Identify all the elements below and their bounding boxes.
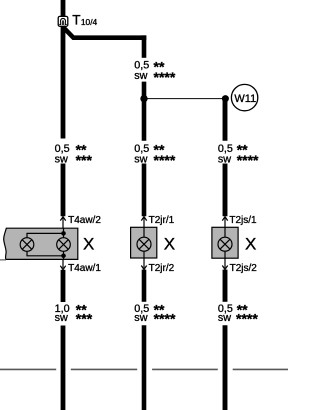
bulb E (left) in lamp unit [20,238,34,252]
ground rail line (bottom frame) [0,368,288,370]
wire W-left segment below lamp unit [61,270,66,302]
pin T2js/1 (arrow into right lamp) [222,215,257,227]
svg-text:sw: sw [55,312,68,324]
wire W-middle segment below top label through junction [142,82,147,141]
wire W-right segment below lamp [223,270,228,302]
bulb in middle lamp [137,227,151,258]
label X (right lamp) [245,235,256,254]
svg-text:T2js/1: T2js/1 [229,215,257,226]
pin T2js/2 (arrow out of right lamp) [222,258,257,274]
bulb in right lamp [218,227,232,258]
svg-text:****: **** [237,152,259,168]
wire parallel top link in left lamp unit [27,233,64,237]
svg-text:X: X [164,235,175,254]
label X (middle lamp) [164,235,175,254]
node: exit junction in left lamp unit [61,251,66,259]
svg-text:W11: W11 [234,93,256,105]
node: entry junction in left lamp unit [61,228,66,237]
value label 1,0 sw ** *** (left track, bottom) [55,302,93,327]
lamp M2 middle (box) [131,227,157,258]
value label 0,5 sw ** (middle track, top) [134,58,176,85]
svg-text:****: **** [154,311,176,327]
wire W-middle segment below lamp [142,270,147,302]
wire W-right bottom segment to edge [223,325,228,410]
svg-text:***: *** [76,311,93,327]
svg-text:****: **** [236,311,258,327]
wiring connection W11 [231,84,257,110]
wire W-left bottom segment to edge [61,326,66,410]
svg-text:T2js/2: T2js/2 [230,263,258,274]
svg-text:T2jr/2: T2jr/2 [149,263,175,274]
torn-edge baseline extension at image left [0,259,6,261]
svg-text:T2jr/1: T2jr/1 [149,215,175,226]
lamp M3 right (box) [212,227,238,258]
wire W-right lower segment to lamp unit [223,164,228,217]
wire W-middle bottom segment to edge [142,325,147,410]
wire W-left top segment entering connector [61,0,66,17]
svg-text:T: T [72,13,80,28]
lamp unit X left (twin bulbs, component torn edge) [4,228,78,259]
pin T2jr/2 (arrow out of middle lamp) [141,258,174,274]
svg-text:****: **** [154,69,176,85]
wire W-middle lower segment to lamp unit [142,164,147,217]
svg-text:T4aw/2: T4aw/2 [68,215,101,226]
pin T2jr/1 (arrow into middle lamp) [141,215,174,227]
pin T4aw/2 (arrow into left lamp unit) [60,215,101,228]
wire W-right segment from W11 junction down [223,98,228,140]
junction on middle track [140,95,147,102]
svg-text:sw: sw [134,312,147,324]
svg-text:***: *** [76,152,93,168]
connector T10/4 [58,16,68,26]
svg-text:****: **** [154,152,176,168]
bulb E (right) in lamp unit [57,238,71,252]
label T10/4 [72,13,97,28]
svg-text:10/4: 10/4 [81,17,98,27]
label X (left lamp unit) [83,235,94,254]
pin T4aw/1 (arrow out of left lamp unit) [60,259,101,274]
svg-text:X: X [245,235,256,254]
value label 0,5 sw ** *** (left track) [55,142,93,169]
junction node of W11 tap [222,95,229,102]
wire W-left main vertical segment [61,26,66,138]
wire thin interconnect to W11 [144,98,226,100]
wire parallel bottom link in left lamp unit [27,251,64,256]
svg-text:X: X [83,235,94,254]
svg-text:sw: sw [218,312,231,324]
svg-text:T4aw/1: T4aw/1 [68,263,101,274]
wire branch from T10/4 junction to middle track (diagonal + horizontal + corner down) [63,27,146,58]
svg-text:sw: sw [134,70,147,82]
wire W-left lower segment to lamp unit [61,164,66,217]
